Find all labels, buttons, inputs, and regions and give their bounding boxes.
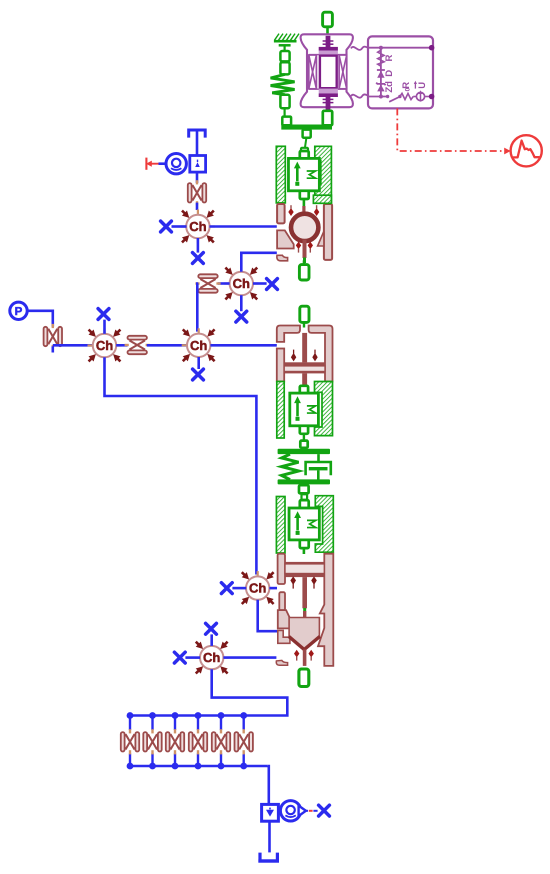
plugged port X left of Ch1 <box>161 221 172 232</box>
pump shaft stub <box>159 162 167 165</box>
mass block M2 (needle) <box>289 508 319 540</box>
svg-text:Ch: Ch <box>249 581 266 596</box>
orifice bank stub top 1 <box>129 716 131 731</box>
wire orifice O3 to Ch4 <box>196 284 199 332</box>
orifice bank stub top 4 <box>197 716 199 731</box>
svg-text:P: P <box>15 306 23 318</box>
wire Ch6 to needle seat chamber <box>223 656 276 659</box>
plugged port X sensor unused output <box>319 805 330 816</box>
wire rail to relief valve <box>268 766 269 804</box>
needle rod upper <box>302 577 307 608</box>
mass block M0 (armature mass) <box>288 158 319 190</box>
needle rod lower <box>303 611 306 618</box>
needle piston head <box>285 574 324 578</box>
wire Ch6 left <box>185 656 200 659</box>
ball stem <box>302 206 305 214</box>
hydraulic chamber Ch3 <box>88 329 122 363</box>
solenoid electromagnet U1 <box>301 34 369 111</box>
control rod stem <box>303 322 305 327</box>
rigid plate <box>281 117 332 130</box>
spring top plate <box>278 449 330 454</box>
junction top rail J2 <box>149 712 156 719</box>
hydraulic chamber Ch4 <box>182 328 216 362</box>
needle body left wall cap <box>278 553 285 556</box>
port mass2 bottom <box>300 540 309 548</box>
flow sensor link <box>278 810 280 812</box>
junction bottom rail J4 <box>195 763 202 770</box>
orifice O1 <box>188 180 206 205</box>
orifice O2 <box>44 324 62 349</box>
tank T1 (top) <box>189 130 206 138</box>
link square <box>302 494 308 499</box>
solenoid top mechanical port <box>323 12 333 35</box>
port injection hole port <box>299 669 309 687</box>
wire Ch3 top <box>103 320 106 334</box>
flow sensor <box>280 801 300 821</box>
diode D <box>377 70 395 78</box>
plugged port X above Ch3 <box>98 309 109 320</box>
plugged port X above Ch6 <box>206 623 217 634</box>
wire O4 to Ch4 <box>147 344 187 347</box>
upper mass stem <box>303 199 306 206</box>
orifice bank stub top 3 <box>174 716 176 731</box>
needle wall right cap <box>324 553 333 556</box>
wire Ch2 bottom <box>240 295 243 311</box>
wire Ch6 to orifice rail <box>130 669 287 715</box>
control piston rod <box>302 333 307 363</box>
ball lower stem <box>303 240 307 264</box>
pilot valve right seat wedge <box>318 231 324 246</box>
main spring <box>282 454 299 480</box>
hydraulic chamber Ch5 <box>241 571 275 605</box>
port port below spring <box>299 485 309 493</box>
needle lip <box>276 660 287 665</box>
wire tank to node <box>196 132 199 156</box>
needle chamber arrow right <box>311 576 317 588</box>
junction top rail J5 <box>218 712 225 719</box>
plugged port X below Ch2 <box>236 311 247 322</box>
needle piston skirt <box>285 564 324 574</box>
port upper mass bottom <box>300 191 309 199</box>
ball valve <box>291 214 318 241</box>
friction wall right (upper mass) <box>315 146 332 203</box>
orifice bank stub bottom 6 <box>242 754 244 767</box>
wire Ch4 bottom <box>197 357 200 369</box>
control signal dash-dot link <box>397 108 510 154</box>
orifice bank stub top 2 <box>151 716 153 731</box>
sensor output dash <box>306 810 318 812</box>
contact arrow lower-right <box>308 242 313 253</box>
port upper mass top <box>300 151 309 159</box>
orifice O3 <box>195 274 220 292</box>
wire P to orifice O2 <box>27 311 53 327</box>
seat arrow right <box>309 650 314 661</box>
zener diode Zd <box>376 81 395 93</box>
svg-text:Ch: Ch <box>233 276 250 291</box>
junction top rail J6 <box>240 712 247 719</box>
voltage source U <box>413 81 431 102</box>
electrical box enclosure <box>368 36 433 108</box>
control piston lower line <box>284 372 325 374</box>
wire orifice O2 to Ch3 <box>53 344 93 347</box>
switch <box>386 95 402 102</box>
port mass1 bottom <box>300 426 308 434</box>
resistor R0 <box>400 82 413 100</box>
electrical port pin 1 <box>429 45 435 51</box>
needle rod green link <box>303 608 306 611</box>
orifice bank stub top 5 <box>220 716 222 731</box>
orifice bank stub bottom 1 <box>129 754 131 767</box>
plugged port X right of Ch2 <box>267 279 278 290</box>
plugged port X below Ch4 <box>193 369 204 380</box>
svg-text:Ch: Ch <box>96 338 113 353</box>
friction wall left (upper mass) <box>276 146 285 203</box>
chamber arrow right <box>312 350 317 362</box>
orifice OB3 <box>166 729 184 754</box>
wire Ch2 top to pilot valve drain <box>241 253 276 272</box>
orifice bank stub bottom 3 <box>174 754 176 767</box>
wire Ch5 right <box>269 587 277 590</box>
green anchor above right wall <box>313 195 331 203</box>
contact arrow upper-right <box>314 205 319 216</box>
wire Ch3 to Ch5 long line <box>105 357 257 574</box>
hydraulic chamber Ch6 <box>195 641 229 675</box>
pilot port stem <box>303 260 305 264</box>
junction top rail J3 <box>172 712 179 719</box>
plugged port X left of Ch6 <box>174 652 185 663</box>
port pilot valve bottom port <box>299 265 309 280</box>
pressure source P <box>10 302 27 319</box>
wire Ch2 right <box>253 282 267 285</box>
wire Ch1 bottom <box>197 238 200 253</box>
mass1 lower stem <box>303 434 305 441</box>
shaft speed input arrow <box>146 158 159 170</box>
relief valve box <box>262 804 279 821</box>
needle wall left upper <box>278 554 285 584</box>
control piston head <box>284 362 325 366</box>
orifice bank stub bottom 5 <box>220 754 222 767</box>
node dot bottom <box>379 95 383 99</box>
needle poppet <box>289 618 319 650</box>
svg-text:Ch: Ch <box>203 650 220 665</box>
svg-text:U: U <box>417 82 428 89</box>
svg-text:0: 0 <box>405 87 412 91</box>
pilot valve lip <box>277 255 288 260</box>
junction bottom rail J5 <box>218 763 225 770</box>
return spring SP1 <box>271 45 295 116</box>
control piston lower rod <box>302 373 307 385</box>
svg-text:Ch: Ch <box>189 219 206 234</box>
orifice bank stub bottom 2 <box>151 754 153 767</box>
contact arrow lower-left <box>296 242 301 253</box>
hydraulic chamber Ch2 <box>224 267 258 301</box>
friction wall left (mass1) <box>277 382 284 439</box>
port link port above spring <box>300 441 307 448</box>
friction wall right (mass1) <box>315 382 333 436</box>
port mass1 top <box>300 386 308 393</box>
hydraulic chamber Ch1 <box>181 210 215 244</box>
control piston skirt <box>284 366 325 372</box>
port solenoid armature bottom <box>323 111 332 126</box>
mass2 lower stem <box>303 548 306 554</box>
svg-text:R: R <box>384 55 395 62</box>
plugged port X below Ch1 <box>193 253 204 264</box>
port control piston rod port <box>300 306 309 322</box>
pump P1 <box>166 154 186 174</box>
friction wall left (mass2) <box>276 497 285 554</box>
electrical port pin 2 <box>429 94 435 100</box>
pilot valve seat block left <box>277 230 294 248</box>
hydraulic node box <box>190 156 206 173</box>
needle wall right <box>318 554 333 666</box>
damper <box>306 454 331 480</box>
orifice bank bottom rail <box>130 765 268 768</box>
control piston wall left lower <box>277 349 284 382</box>
svg-text:D: D <box>384 70 395 77</box>
svg-text:Ch: Ch <box>190 338 207 353</box>
wire Ch6 top <box>210 634 213 646</box>
pilot valve left wall <box>277 204 285 223</box>
junction bottom rail J3 <box>172 763 179 770</box>
orifice OB6 <box>235 729 253 754</box>
plate output port and link <box>301 130 311 153</box>
wire Ch5 to needle chamber <box>258 600 277 631</box>
wire orifice O1 to chamber Ch1 <box>196 203 199 210</box>
needle tip stem <box>303 650 307 666</box>
junction bottom rail J2 <box>149 763 156 770</box>
orifice bank stub top 6 <box>242 716 244 731</box>
wire Ch1 to pilot valve <box>210 225 277 228</box>
spring ceiling anchor <box>274 34 299 42</box>
wire relief valve to tank <box>268 821 271 852</box>
control piston body left <box>277 326 300 342</box>
pilot valve right wall <box>324 204 332 260</box>
junction bottom rail J6 <box>240 763 247 770</box>
spring bottom plate <box>278 479 330 484</box>
junction top rail J4 <box>195 712 202 719</box>
wire Ch3 right <box>116 344 127 347</box>
needle chamber arrow left <box>290 576 296 588</box>
seat arrow left <box>294 650 299 661</box>
mass block M1 (control piston) <box>290 393 319 426</box>
node dot top <box>379 46 383 50</box>
control piston body right <box>309 326 333 382</box>
sensor cone <box>299 806 306 816</box>
orifice OB2 <box>143 729 161 754</box>
needle piston top line <box>285 562 324 564</box>
wire Ch4 to control piston <box>210 344 276 347</box>
needle guide L-piece <box>278 630 290 643</box>
orifice OB4 <box>189 729 207 754</box>
resistor R <box>378 50 395 66</box>
tank T2 (bottom) <box>258 853 279 861</box>
junction top rail J1 <box>127 712 134 719</box>
wire Ch1 left <box>172 225 187 228</box>
junction bottom rail J1 <box>127 763 134 770</box>
chamber arrow left <box>291 350 296 362</box>
needle seat V <box>289 636 320 649</box>
plugged port X left of Ch5 <box>221 583 232 594</box>
wire Ch5 left <box>232 587 246 590</box>
orifice bank stub bottom 4 <box>197 754 199 767</box>
wire orifice O2 stub <box>51 346 54 352</box>
signal source (injection pulse) <box>511 135 542 166</box>
wire node to orifice O1 <box>196 172 199 183</box>
needle wall left mid <box>279 592 285 610</box>
friction wall right (mass2) <box>315 496 333 553</box>
port mass2 top <box>300 500 309 508</box>
needle seat block left <box>278 610 295 628</box>
orifice OB5 <box>212 729 230 754</box>
orifice OB1 <box>121 729 139 754</box>
svg-text:Zd: Zd <box>384 81 395 93</box>
wire Ch2 left <box>218 282 230 285</box>
contact arrow upper-left <box>288 205 293 216</box>
orifice O4 <box>125 336 150 354</box>
